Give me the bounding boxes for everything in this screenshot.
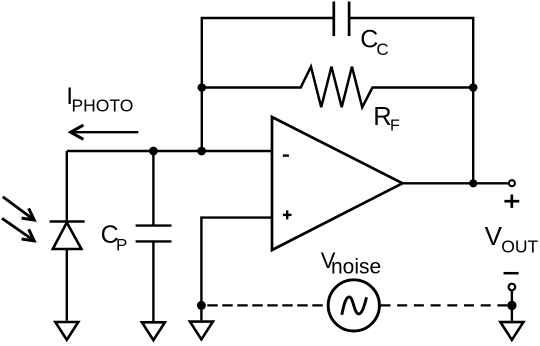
svg-text:noise: noise xyxy=(331,256,381,279)
svg-text:PHOTO: PHOTO xyxy=(72,95,134,115)
svg-text:R: R xyxy=(373,103,391,131)
svg-text:F: F xyxy=(390,117,400,134)
svg-text:P: P xyxy=(116,235,127,254)
svg-text:OUT: OUT xyxy=(501,236,538,256)
svg-text:C: C xyxy=(376,40,388,59)
svg-text:V: V xyxy=(485,221,503,251)
